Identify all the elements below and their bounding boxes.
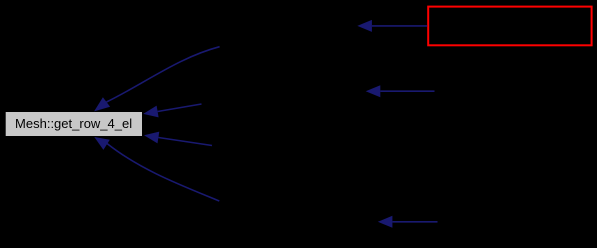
svg-text:Mesh::get_row_4_el: Mesh::get_row_4_el — [15, 116, 132, 131]
